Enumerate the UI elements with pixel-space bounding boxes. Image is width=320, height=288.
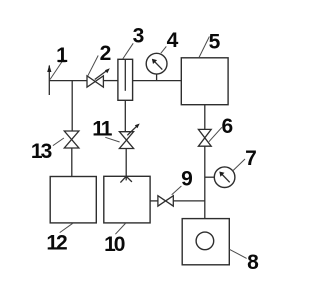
valve 6 xyxy=(198,129,211,146)
wire top main horizontal xyxy=(49,80,87,82)
wire valve13 to vessel12 xyxy=(71,148,73,177)
leader line 10 xyxy=(115,223,125,234)
leader line 3 xyxy=(123,43,134,59)
svg-text:6: 6 xyxy=(221,115,233,138)
svg-text:9: 9 xyxy=(181,168,193,191)
gauge 4 xyxy=(146,53,167,80)
svg-text:12: 12 xyxy=(46,232,67,255)
svg-text:7: 7 xyxy=(245,147,257,170)
svg-text:8: 8 xyxy=(247,251,259,274)
leader line 11 xyxy=(105,137,119,142)
vessel 12 xyxy=(50,177,96,223)
leader line 13 xyxy=(53,138,64,146)
vessel 5 xyxy=(181,58,228,105)
svg-text:3: 3 xyxy=(133,24,145,47)
gauge 7 xyxy=(205,167,235,188)
inlet port 1 xyxy=(47,65,51,95)
valve 2 xyxy=(87,68,110,87)
leader line 2 xyxy=(88,56,99,77)
leader line 7 xyxy=(233,159,245,171)
wire valve9 to right line xyxy=(173,200,205,202)
leader line 4 xyxy=(161,46,166,53)
column 3 xyxy=(118,59,133,100)
vessel 10 xyxy=(104,176,150,223)
svg-text:2: 2 xyxy=(100,42,112,65)
leader line 12 xyxy=(60,223,73,232)
svg-text:11: 11 xyxy=(92,118,113,141)
leader line 5 xyxy=(199,37,209,58)
valve 9 xyxy=(158,196,173,206)
wire branch to valve13 xyxy=(71,81,73,131)
svg-text:13: 13 xyxy=(31,140,52,163)
valve 11 xyxy=(119,124,139,149)
svg-text:5: 5 xyxy=(209,31,221,54)
wire vessel5 to valve6 xyxy=(204,105,206,130)
wire column3 to vessel5 xyxy=(133,80,182,82)
wire valve2 to column3 xyxy=(103,80,118,82)
svg-text:10: 10 xyxy=(104,233,125,256)
valve 13 xyxy=(64,131,79,148)
svg-text:1: 1 xyxy=(56,44,68,67)
vessel 8 xyxy=(182,219,229,265)
leader line 1 xyxy=(50,59,64,80)
leader line 6 xyxy=(209,127,222,141)
leader line 8 xyxy=(230,249,247,258)
wire valve6 to vessel8 xyxy=(204,146,206,218)
wire column3 to valve11 xyxy=(124,100,126,131)
leader line 9 xyxy=(172,186,182,195)
svg-text:4: 4 xyxy=(167,29,179,52)
wire vessel10 to valve9 xyxy=(150,200,158,202)
wire valve11 to vessel10 xyxy=(125,149,127,177)
